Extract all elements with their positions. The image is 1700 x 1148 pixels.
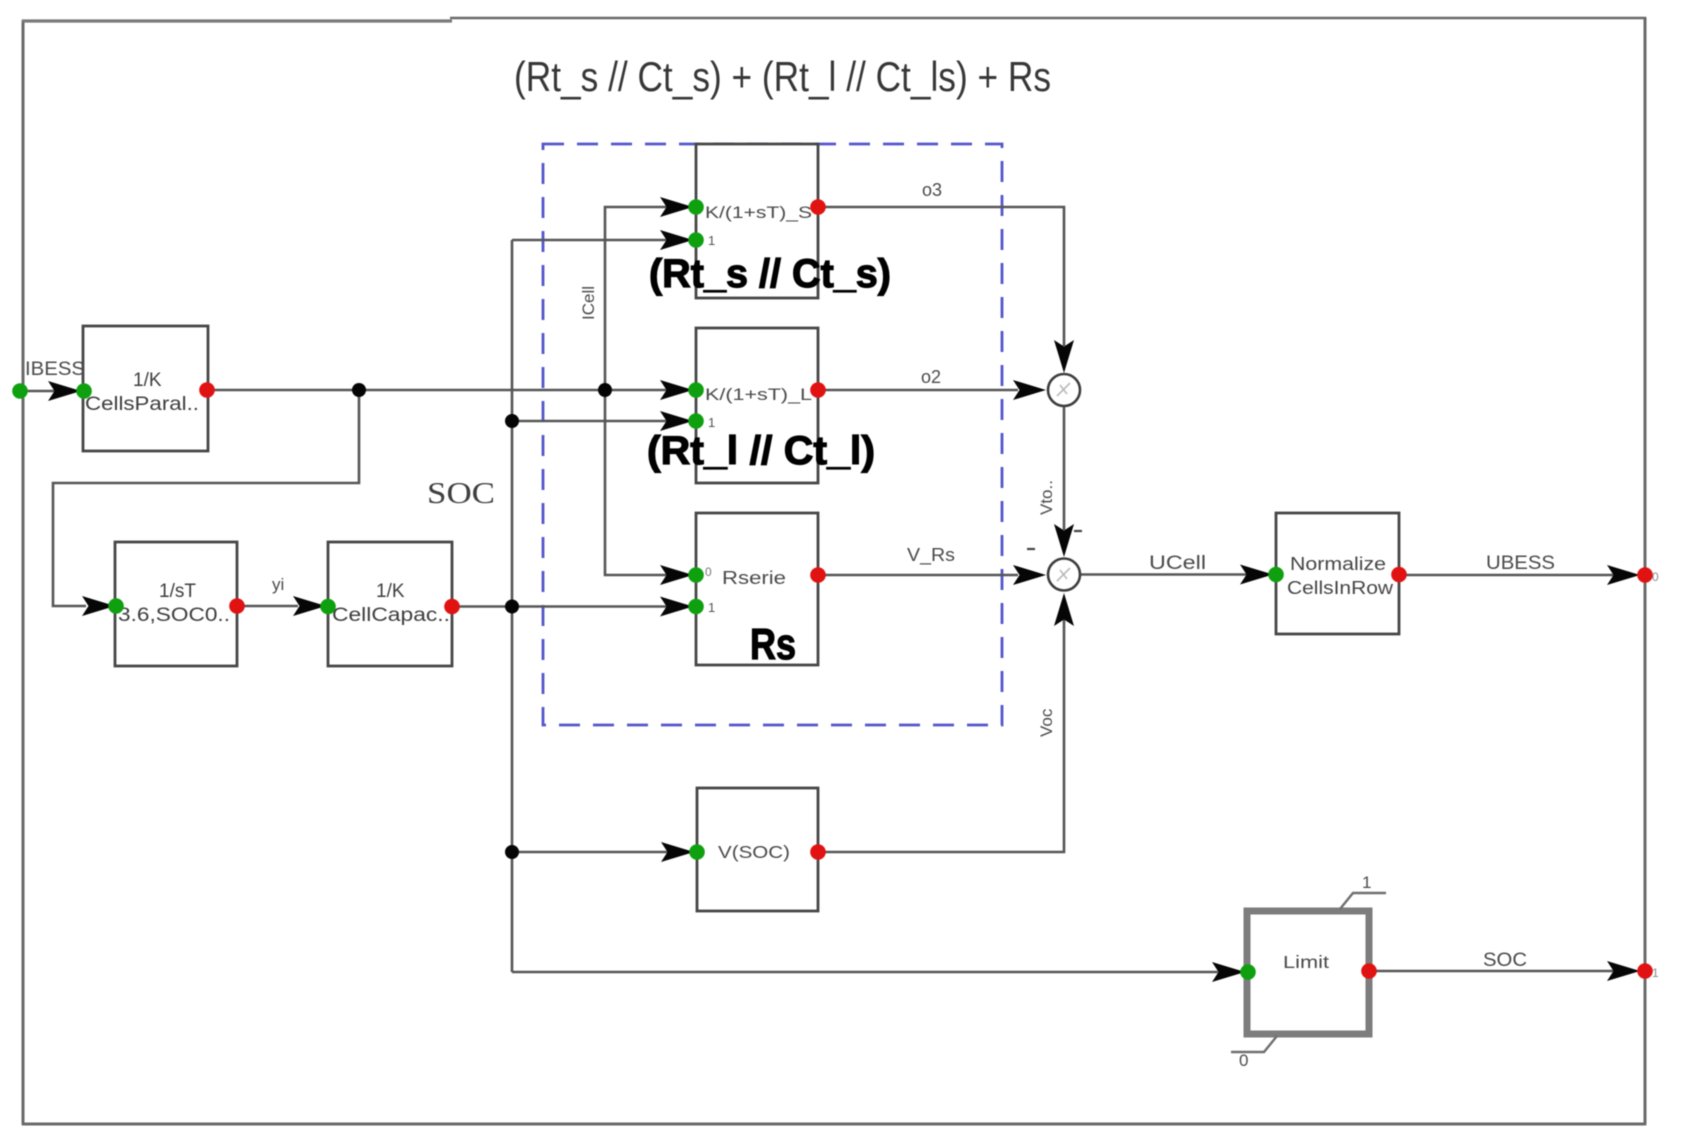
svg-text:SOC: SOC xyxy=(1483,950,1527,971)
junction SOC to Rserie input 1 xyxy=(505,600,519,614)
wire Voc xyxy=(818,618,1064,852)
svg-text:Rs: Rs xyxy=(750,620,796,669)
sign minus left of lower sum xyxy=(1027,548,1035,550)
pin 1/sT output red dot xyxy=(229,598,245,614)
dashed selection box xyxy=(543,144,1002,725)
pin V(SOC) input green dot xyxy=(689,844,705,860)
block 1/sT 3.6,SOC0 xyxy=(115,542,237,666)
pin CellCapac input green dot xyxy=(320,599,336,615)
svg-text:CellCapac..: CellCapac.. xyxy=(332,605,450,626)
arrowhead Vto down into lower sum xyxy=(1054,524,1074,557)
arrowhead into Rserie input 0 xyxy=(660,565,693,585)
block K/(1+sT)_L xyxy=(696,328,818,483)
svg-text:Rserie: Rserie xyxy=(722,568,786,588)
input terminal IBESS green dot xyxy=(12,383,28,399)
pin V(SOC) output red dot xyxy=(810,844,826,860)
svg-text:Vto..: Vto.. xyxy=(1037,480,1056,515)
arrowhead o2 into upper sum xyxy=(1013,380,1046,400)
svg-text:(Rt_s // Ct_s) + (Rt_l // Ct_l: (Rt_s // Ct_s) + (Rt_l // Ct_ls) + Rs xyxy=(514,53,1051,100)
arrowhead into SOC terminal xyxy=(1607,961,1640,981)
wire Limit in xyxy=(512,971,1218,974)
pin Rserie input 1 green dot xyxy=(688,599,704,615)
arrowhead into 1/sT xyxy=(82,596,115,616)
pin K/(1+sT)_L output red dot xyxy=(810,382,826,398)
block 1/K CellsParal xyxy=(83,326,208,451)
svg-text:ICell: ICell xyxy=(579,286,598,320)
pin CellCapac output red dot xyxy=(444,599,460,615)
svg-text:1: 1 xyxy=(1362,873,1371,892)
svg-text:0: 0 xyxy=(1239,1051,1248,1070)
svg-text:1: 1 xyxy=(708,233,715,248)
block V(SOC) xyxy=(697,788,818,911)
svg-text:UCell: UCell xyxy=(1149,553,1206,574)
wire yi xyxy=(237,605,298,608)
wire V(SOC) in xyxy=(512,851,668,854)
wire ICell vertical down to Rserie xyxy=(605,390,668,575)
arrowhead into Normalize xyxy=(1240,565,1273,585)
arrowhead Voc up into lower sum xyxy=(1054,593,1074,626)
svg-text:V(SOC): V(SOC) xyxy=(718,842,790,862)
svg-text:3.6,SOC0..: 3.6,SOC0.. xyxy=(118,605,230,626)
svg-text:1/K: 1/K xyxy=(376,581,405,602)
pin K/(1+sT)_S input 1 green dot xyxy=(688,232,704,248)
wire between sum circles Vto xyxy=(1063,406,1066,530)
wire ICell vertical xyxy=(605,207,668,390)
wire V_Rs xyxy=(818,574,1018,577)
junction ICell vertical branch xyxy=(598,383,612,397)
wire UBESS xyxy=(1399,574,1614,577)
pin Limit output red dot xyxy=(1361,963,1377,979)
pin K/(1+sT)_S input 0 green dot xyxy=(688,199,704,215)
sign minus top of lower sum xyxy=(1074,530,1082,532)
wire o2 xyxy=(818,389,1018,392)
arrowhead into V(SOC) xyxy=(661,842,694,862)
svg-text:1: 1 xyxy=(1652,966,1659,980)
svg-text:V_Rs: V_Rs xyxy=(907,545,955,566)
svg-text:SOC: SOC xyxy=(427,475,495,510)
junction SOC to K/(1+sT)_L input 1 xyxy=(505,414,519,428)
arrowhead into Limit xyxy=(1212,962,1245,982)
wire CellCapac out to Rserie in1 xyxy=(452,605,668,608)
block 1/K CellCapac xyxy=(328,542,452,666)
pin Normalize output red dot xyxy=(1391,567,1407,583)
output terminal SOC red dot xyxy=(1637,963,1653,979)
svg-text:(Rt_l // Ct_l): (Rt_l // Ct_l) xyxy=(647,429,875,473)
pin K/(1+sT)_L input 1 green dot xyxy=(688,413,704,429)
junction ICell branch to SOC integrator xyxy=(352,383,366,397)
wire ICell main horizontal xyxy=(208,389,668,392)
arrowhead into CellCapac xyxy=(293,596,326,616)
block Limit xyxy=(1247,911,1369,1034)
arrowhead into UBESS terminal xyxy=(1607,565,1640,585)
sum circle upper xyxy=(1048,374,1080,406)
pin K/(1+sT)_S output red dot xyxy=(810,199,826,215)
junction SOC to V(SOC) input xyxy=(505,845,519,859)
svg-text:Limit: Limit xyxy=(1283,952,1329,972)
svg-text:(Rt_s // Ct_s): (Rt_s // Ct_s) xyxy=(649,252,891,296)
svg-text:Voc: Voc xyxy=(1037,708,1056,737)
arrowhead into K/(1+sT)_S input 1 xyxy=(660,230,693,250)
svg-text:0: 0 xyxy=(705,565,712,579)
block K/(1+sT)_S xyxy=(696,144,818,298)
arrowhead o3 down into upper sum xyxy=(1054,340,1074,373)
svg-text:1: 1 xyxy=(708,600,715,615)
svg-text:Normalize: Normalize xyxy=(1290,554,1386,574)
svg-text:CellsInRow: CellsInRow xyxy=(1287,578,1394,598)
svg-text:1/sT: 1/sT xyxy=(159,581,196,602)
pin Rserie input 0 green dot xyxy=(688,567,704,583)
wire IBESS input xyxy=(23,390,84,393)
arrowhead into K/(1+sT)_L input 0 xyxy=(660,380,693,400)
pin CellsParal output red dot xyxy=(199,382,215,398)
block Normalize CellsInRow xyxy=(1276,513,1399,634)
wire L in1 xyxy=(512,420,668,423)
svg-text:0: 0 xyxy=(1652,570,1659,584)
sum circle lower xyxy=(1048,559,1080,591)
svg-text:o2: o2 xyxy=(921,367,941,387)
pin CellsParal input green dot xyxy=(76,383,92,399)
limiter mark lower 0 xyxy=(1231,1036,1277,1052)
limiter mark upper 1 xyxy=(1340,893,1386,909)
pin Rserie output red dot xyxy=(810,567,826,583)
output terminal UBESS red dot xyxy=(1637,567,1653,583)
svg-text:K/(1+sT)_S: K/(1+sT)_S xyxy=(705,204,812,222)
pin 1/sT input green dot xyxy=(108,598,124,614)
svg-text:yi: yi xyxy=(272,575,284,594)
wire S in1 xyxy=(512,239,668,242)
svg-text:1: 1 xyxy=(708,415,715,430)
block Rserie xyxy=(696,513,818,665)
wire SOC vertical xyxy=(511,240,514,972)
svg-text:1/K: 1/K xyxy=(133,370,162,391)
svg-text:CellsParal..: CellsParal.. xyxy=(85,394,199,415)
wire UCell xyxy=(1080,573,1248,576)
pin K/(1+sT)_L input 0 green dot xyxy=(688,382,704,398)
svg-text:UBESS: UBESS xyxy=(1486,553,1555,574)
arrowhead into CellsParal xyxy=(48,381,81,401)
arrowhead into K/(1+sT)_L input 1 xyxy=(660,411,693,431)
svg-text:o3: o3 xyxy=(922,180,942,200)
arrowhead into Rserie input 1 xyxy=(660,597,693,617)
svg-text:K/(1+sT)_L: K/(1+sT)_L xyxy=(705,386,812,404)
wire Limit out SOC xyxy=(1369,970,1614,973)
svg-text:IBESS: IBESS xyxy=(25,359,85,380)
pin Normalize input green dot xyxy=(1268,567,1284,583)
pin Limit input green dot xyxy=(1240,964,1256,980)
wire SOC loop down-left xyxy=(53,390,359,606)
wire o3 xyxy=(818,207,1064,346)
arrowhead V_Rs into lower sum xyxy=(1013,565,1046,585)
arrowhead into K/(1+sT)_S input 0 xyxy=(660,197,693,217)
